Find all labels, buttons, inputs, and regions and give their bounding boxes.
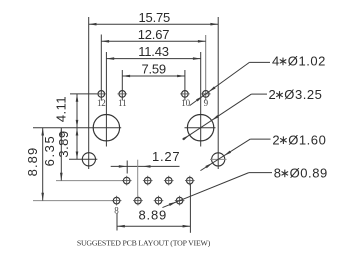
svg-text:7.59: 7.59 xyxy=(141,62,166,77)
pin row A #2 xyxy=(143,176,153,186)
wire extension tick pin row (4.11 ref) xyxy=(70,93,98,95)
wire extension line pin 10 (7.59 ref) xyxy=(184,70,186,101)
svg-text:SUGGESTED PCB LAYOUT (TOP VIEW: SUGGESTED PCB LAYOUT (TOP VIEW) xyxy=(77,238,211,247)
pin row A #1 xyxy=(122,176,132,186)
wire extension line pin 11 (7.59 ref) xyxy=(121,70,123,101)
leader 4x phi1.02 to pin 9 xyxy=(190,54,326,106)
svg-text:10: 10 xyxy=(181,98,190,108)
svg-text:6.35: 6.35 xyxy=(42,135,57,167)
svg-text:8: 8 xyxy=(274,166,282,181)
pin 12 xyxy=(97,91,107,98)
leader 2x phi3.25 to right big hole xyxy=(182,87,322,140)
dimension 8.89 left xyxy=(25,128,44,201)
wire extension line right big hole (11.43 ref) xyxy=(200,52,202,147)
dimension 7.59 xyxy=(122,62,185,78)
svg-text:4.11: 4.11 xyxy=(54,96,69,122)
svg-text:8.89: 8.89 xyxy=(25,147,40,177)
svg-text:2: 2 xyxy=(272,132,280,147)
svg-text:12: 12 xyxy=(97,98,106,108)
svg-text:11.43: 11.43 xyxy=(138,44,169,59)
pin 10 xyxy=(180,91,190,98)
dimension 12.67 xyxy=(101,27,205,43)
wire extension line left big hole (11.43 ref) xyxy=(105,52,107,147)
svg-text:12.67: 12.67 xyxy=(138,27,170,42)
svg-text:Ø1.02: Ø1.02 xyxy=(288,54,326,69)
wire extension line left phi1.6 hole (15.75 ref) xyxy=(88,17,90,169)
leader 8x phi0.89 to pin row xyxy=(162,166,327,208)
svg-text:4: 4 xyxy=(272,54,280,69)
svg-text:2: 2 xyxy=(269,87,277,102)
pin row B #2 xyxy=(133,196,143,206)
svg-text:8.89: 8.89 xyxy=(139,208,168,223)
pin row B #3 xyxy=(154,196,164,206)
svg-text:3.89: 3.89 xyxy=(56,130,71,157)
hole phi3.25 right xyxy=(185,115,216,141)
wire extension line right phi1.6 hole (15.75 ref) xyxy=(217,17,219,169)
svg-text:Ø3.25: Ø3.25 xyxy=(284,87,322,102)
pin row B #1 xyxy=(112,196,122,206)
pin row B #4 xyxy=(175,196,185,206)
svg-text:9: 9 xyxy=(204,98,209,108)
pin 11 xyxy=(118,91,128,98)
hole phi1.60 right xyxy=(210,153,227,166)
wire extension tick phi1.6 (3.89 ref) xyxy=(69,158,97,160)
leader 2x phi1.60 to right small hole xyxy=(200,132,326,170)
hole phi3.25 left xyxy=(93,115,119,141)
wire extension line pin 9 (12.67 ref) xyxy=(205,35,207,101)
dimension 15.75 xyxy=(89,10,219,26)
dimension 4.11 xyxy=(54,94,79,128)
wire extension row A (6.35 ref) xyxy=(56,180,123,182)
svg-text:1.27: 1.27 xyxy=(152,149,181,164)
dimension 3.89 xyxy=(56,128,78,160)
pin row A #4 xyxy=(185,176,195,186)
dimension 1.27 xyxy=(111,149,181,197)
dimension 6.35 xyxy=(42,128,63,181)
svg-text:Ø0.89: Ø0.89 xyxy=(290,166,328,181)
dimension 8.89 bottom xyxy=(117,184,190,233)
pin row A #3 xyxy=(164,176,174,186)
hole phi1.60 left xyxy=(82,153,95,166)
svg-text:Ø1.60: Ø1.60 xyxy=(288,132,326,147)
dimension 11.43 xyxy=(106,44,200,60)
svg-text:11: 11 xyxy=(118,98,126,108)
wire centerline big holes xyxy=(33,127,121,129)
wire extension row B (8.89 ref) xyxy=(33,200,113,202)
pin 9 xyxy=(201,91,211,98)
svg-text:15.75: 15.75 xyxy=(139,10,171,25)
wire extension line pin 12 (12.67 ref) xyxy=(100,35,102,101)
